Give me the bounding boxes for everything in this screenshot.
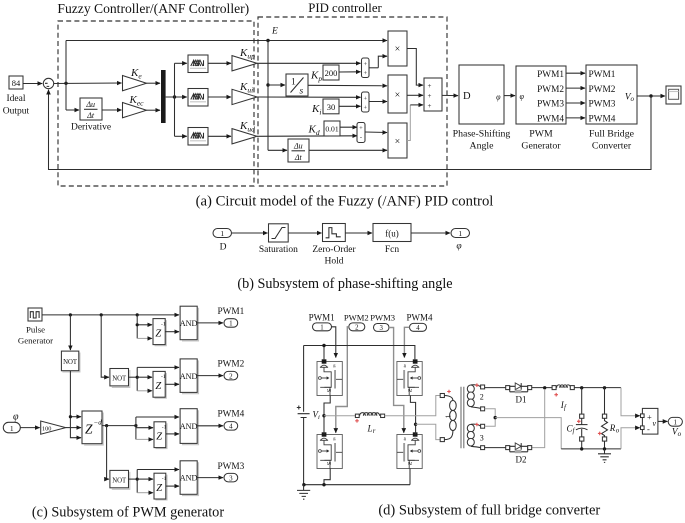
wire E line xyxy=(66,39,387,42)
sum block S3 xyxy=(357,123,365,143)
svg-text:NOT: NOT xyxy=(112,477,127,484)
diode D1 xyxy=(506,383,532,405)
wire AND4 to port3 xyxy=(197,477,223,479)
voltage measurement block xyxy=(641,408,658,434)
svg-text:Derivative: Derivative xyxy=(71,123,111,133)
wire fuzzy fanout vertical xyxy=(174,63,176,136)
svg-text:-1: -1 xyxy=(161,322,166,328)
wire top rail xyxy=(304,344,415,360)
svg-text:Kui: Kui xyxy=(239,81,253,95)
wire mult3 to sumF xyxy=(407,105,410,141)
delay block Z1 xyxy=(153,319,166,346)
logic NOT1 xyxy=(61,351,80,372)
svg-text:4: 4 xyxy=(416,325,420,332)
derivative block du/dt xyxy=(71,98,111,133)
constant 84 Ideal Output xyxy=(3,76,30,117)
wire gate2 xyxy=(336,327,349,433)
wire Kui to sum2 xyxy=(257,96,361,98)
svg-text:1: 1 xyxy=(458,229,462,238)
svg-text:(a) Circuit model of the Fuzzy: (a) Circuit model of the Fuzzy (/ANF) PI… xyxy=(196,194,494,210)
wire S1 to mult1 xyxy=(369,67,378,69)
wire S3 to mult3 xyxy=(365,131,387,134)
svg-text:Ki: Ki xyxy=(311,103,321,117)
sum junction S0 xyxy=(43,78,53,88)
svg-text:2: 2 xyxy=(229,372,233,380)
svg-text:D2: D2 xyxy=(516,455,527,465)
svg-text:D1: D1 xyxy=(516,395,527,405)
dashed box Fuzzy Controller xyxy=(58,21,254,186)
wire AND2 to port2 xyxy=(197,375,223,377)
sum block final xyxy=(424,78,442,111)
inport PWM4 xyxy=(406,313,433,332)
svg-text:PWM1: PWM1 xyxy=(589,70,616,80)
svg-text:PWM4: PWM4 xyxy=(406,313,433,323)
dashed box PID controller xyxy=(258,17,447,186)
product block mult1 xyxy=(388,31,407,66)
fuzzy block 2 xyxy=(188,89,208,107)
svg-text:Z: Z xyxy=(155,381,161,392)
mux bar xyxy=(161,70,166,123)
delay block Z2 xyxy=(153,371,166,398)
wire M2 source xyxy=(324,469,330,485)
svg-text:+: + xyxy=(363,104,367,111)
svg-text:AND: AND xyxy=(180,372,198,381)
wire Ke to mux xyxy=(147,82,161,84)
svg-text:E: E xyxy=(271,27,278,37)
svg-text:f: f xyxy=(564,404,567,411)
svg-text:4: 4 xyxy=(229,423,233,431)
red plus Ro xyxy=(598,432,602,436)
svg-text:PWM4: PWM4 xyxy=(537,115,564,125)
pulse generator xyxy=(18,308,53,346)
MOSFET M4 xyxy=(397,432,422,468)
svg-text:Ke: Ke xyxy=(130,67,142,81)
wire AND1 to port1 xyxy=(197,322,223,324)
svg-text:×: × xyxy=(395,137,401,148)
svg-text:+: + xyxy=(428,102,432,110)
svg-text:Z: Z xyxy=(156,432,162,443)
wire mult1 to sumF xyxy=(407,49,423,86)
svg-text:30: 30 xyxy=(327,102,336,112)
inductor Lr xyxy=(355,413,384,435)
wire corner to vminus xyxy=(621,428,640,449)
wire gate4 xyxy=(404,327,409,357)
wire saturation to ZOH xyxy=(288,232,321,234)
wire Lf to out corner xyxy=(574,386,621,389)
product block mult3 xyxy=(388,123,407,158)
product block mult2 xyxy=(388,75,407,113)
svg-text:PWM3: PWM3 xyxy=(217,462,244,472)
wire Zd out xyxy=(102,424,137,427)
ground G2 xyxy=(598,449,611,463)
svg-text:PWM4: PWM4 xyxy=(217,410,244,420)
fcn block f(u) xyxy=(373,224,411,256)
diode D2 xyxy=(506,443,532,465)
wire to NOT3 xyxy=(107,426,109,480)
svg-text:Generator: Generator xyxy=(18,336,53,346)
svg-text:Pulse: Pulse xyxy=(26,325,45,335)
MOSFET M3 xyxy=(397,359,422,395)
svg-text:PWM1: PWM1 xyxy=(309,313,335,323)
wire load bottom rail xyxy=(561,447,621,450)
outport PWM1 xyxy=(217,307,244,328)
wire node to primary bottom xyxy=(416,424,440,439)
svg-text:Δu: Δu xyxy=(293,142,303,151)
outport PWM4 xyxy=(217,410,244,431)
logic AND2 xyxy=(180,359,199,394)
inport D xyxy=(213,229,232,253)
wire M4 source xyxy=(409,469,411,485)
svg-text:φ: φ xyxy=(496,93,501,102)
svg-text:Z: Z xyxy=(85,422,93,437)
svg-text:Z: Z xyxy=(156,483,162,494)
wire mult2 to sumF xyxy=(407,94,423,96)
gain Ke xyxy=(123,67,147,91)
svg-text:PWM2: PWM2 xyxy=(537,85,564,95)
wire Z4 to AND4 xyxy=(166,485,179,487)
red plus Cf xyxy=(577,420,581,424)
svg-text:φ: φ xyxy=(456,242,461,252)
wire Z2 to AND2 xyxy=(165,383,179,385)
wire S2 to mult2 xyxy=(369,101,387,103)
wire fuzzy3 to Kud xyxy=(208,135,231,137)
wire mux out xyxy=(166,95,187,98)
svg-text:1: 1 xyxy=(10,424,14,433)
svg-text:×: × xyxy=(395,44,401,55)
svg-text:+: + xyxy=(363,61,367,68)
svg-text:Kec: Kec xyxy=(129,94,145,108)
svg-text:+: + xyxy=(647,412,652,422)
wire Kud to sum3 xyxy=(257,135,357,138)
wire E branch vertical xyxy=(266,41,269,151)
svg-text:1: 1 xyxy=(443,414,452,418)
svg-text:×: × xyxy=(395,90,401,101)
fuzzy block 1 xyxy=(188,55,208,73)
wire sec2 to D1 xyxy=(485,387,506,389)
svg-text:Kd: Kd xyxy=(308,124,320,138)
svg-text:1: 1 xyxy=(674,419,678,427)
red plus Lr xyxy=(355,419,359,423)
svg-text:-: - xyxy=(360,134,362,141)
wire to derivative2 xyxy=(268,149,287,151)
svg-text:PWM3: PWM3 xyxy=(537,100,564,110)
svg-text:PWM2: PWM2 xyxy=(589,85,616,95)
wire PSA to PWMGen xyxy=(504,95,515,97)
wire derivative2 to mult3 xyxy=(309,149,387,151)
wire gain to Zd xyxy=(66,427,81,429)
outport Vo xyxy=(668,417,682,438)
zero-order hold block xyxy=(312,224,356,267)
svg-text:PWM4: PWM4 xyxy=(589,115,616,125)
wire node vertical xyxy=(65,41,67,111)
delay block Z4 xyxy=(154,473,167,500)
saturation block xyxy=(259,224,298,255)
sum block S2 xyxy=(362,92,370,112)
inport PWM3 xyxy=(370,313,395,332)
wire Z1 to AND1 xyxy=(165,331,179,333)
svg-text:φ: φ xyxy=(13,412,19,423)
outport PWM3 xyxy=(217,462,244,483)
wire gate3 xyxy=(389,328,404,433)
wire D1 to Lf xyxy=(532,386,552,389)
constant Ki 30 xyxy=(311,99,339,117)
svg-text:Output: Output xyxy=(3,107,30,117)
svg-text:o: o xyxy=(616,427,620,434)
wire D2 up xyxy=(532,389,545,448)
wire to Derivative xyxy=(66,109,79,111)
transformer core xyxy=(461,387,464,449)
svg-text:1: 1 xyxy=(291,78,296,88)
svg-text:+: + xyxy=(428,82,432,90)
svg-text:−d: −d xyxy=(94,419,103,427)
sum block S1 xyxy=(362,58,370,78)
wire NOT1 to Zd inputs xyxy=(69,371,81,438)
wire feedback xyxy=(49,90,652,170)
derivative2 block du/dt xyxy=(288,139,309,162)
outport PWM2 xyxy=(217,360,244,381)
svg-text:PWM: PWM xyxy=(529,129,553,140)
svg-text:Saturation: Saturation xyxy=(259,245,298,255)
wire AND3 to port4 xyxy=(197,425,223,427)
delay block Z3 xyxy=(154,422,167,449)
wire NOT2 fanout xyxy=(129,367,180,390)
transformer secondary 2 top xyxy=(467,385,484,411)
svg-text:Zero-Order: Zero-Order xyxy=(312,245,356,255)
gain 100 xyxy=(41,421,66,434)
svg-text:3: 3 xyxy=(229,474,233,482)
wire v to outport xyxy=(658,420,668,422)
wire node to Lr xyxy=(324,415,355,417)
inductor Lf xyxy=(552,385,574,411)
svg-text:Fuzzy Controller/(ANF Control: Fuzzy Controller/(ANF Controller) xyxy=(57,1,249,17)
constant Kd 0.01 xyxy=(308,121,341,137)
svg-text:R: R xyxy=(609,423,616,433)
transformer primary xyxy=(440,394,456,442)
inport phi xyxy=(3,412,20,433)
wire to NOT2 xyxy=(101,315,109,377)
svg-text:1: 1 xyxy=(320,324,323,331)
wire Vo to scope xyxy=(637,94,665,97)
svg-text:1: 1 xyxy=(229,320,233,328)
svg-text:Δu: Δu xyxy=(85,100,95,109)
constant Kp 200 xyxy=(310,65,339,83)
fuzzy block 3 xyxy=(188,128,208,146)
outport phi xyxy=(451,229,470,252)
wire phi to gain xyxy=(20,427,39,429)
wire PWM2 link xyxy=(566,87,585,89)
svg-text:Angle: Angle xyxy=(470,141,495,152)
svg-text:AND: AND xyxy=(180,319,198,328)
svg-text:Kup: Kup xyxy=(239,47,255,61)
wire PWM3 link xyxy=(566,102,585,104)
wire derivative to Kec xyxy=(102,109,122,111)
resistor Ro xyxy=(602,388,620,449)
svg-text:Vo: Vo xyxy=(625,93,635,104)
svg-text:3: 3 xyxy=(480,434,484,443)
svg-text:Z: Z xyxy=(155,329,161,340)
wire sum to Ke xyxy=(54,82,122,85)
wire corner to vplus xyxy=(621,388,640,416)
svg-text:Fcn: Fcn xyxy=(385,245,400,255)
svg-text:NOT: NOT xyxy=(112,375,127,382)
svg-text:-1: -1 xyxy=(162,425,167,431)
gain Kec xyxy=(123,94,147,118)
wire M3 source to node xyxy=(410,396,417,435)
wire sec3 to D2 xyxy=(485,447,506,449)
red plus primary xyxy=(447,390,451,394)
red plus Lf xyxy=(554,393,558,397)
svg-text:0.01: 0.01 xyxy=(325,125,338,134)
wire to NOT1 xyxy=(69,315,71,350)
wire Lr to primary top xyxy=(385,396,440,416)
red plus secondary2 xyxy=(475,383,479,387)
svg-text:(b) Subsystem of phase-shiftin: (b) Subsystem of phase-shifting angle xyxy=(237,276,452,292)
wire integrator to mult2 xyxy=(308,84,387,87)
svg-text:PWM3: PWM3 xyxy=(370,313,395,323)
gain Kui xyxy=(232,81,257,105)
gain Kup xyxy=(232,47,257,71)
svg-text:Hold: Hold xyxy=(325,257,344,267)
wire NOT3 fanout xyxy=(129,470,180,493)
svg-text:r: r xyxy=(373,428,376,435)
transformer secondary 3 bottom xyxy=(467,424,484,449)
svg-text:PWM2: PWM2 xyxy=(217,360,244,370)
wire PWM4 link xyxy=(566,117,585,119)
wire Z3 to AND3 xyxy=(166,433,179,435)
subsystem PWM Generator xyxy=(516,66,566,152)
svg-text:Full Bridge: Full Bridge xyxy=(589,129,635,140)
svg-text:PWM3: PWM3 xyxy=(589,100,616,110)
svg-text:Vi: Vi xyxy=(313,410,321,422)
wire Kup to sum1 xyxy=(257,62,361,64)
MOSFET M2 xyxy=(317,432,342,468)
wire sumF to PSA xyxy=(442,94,458,96)
svg-text:+: + xyxy=(363,95,367,102)
logic NOT3 xyxy=(110,470,130,489)
svg-text:Kud: Kud xyxy=(239,120,255,134)
logic AND1 xyxy=(180,306,199,341)
svg-text:φ: φ xyxy=(520,92,525,101)
svg-text:1: 1 xyxy=(220,229,224,238)
integrator block 1/s xyxy=(286,74,308,97)
svg-text:84: 84 xyxy=(12,78,21,88)
svg-text:L: L xyxy=(367,424,373,434)
svg-text:100: 100 xyxy=(42,426,51,433)
wire 84 to sum xyxy=(23,83,42,85)
svg-text:-1: -1 xyxy=(162,476,167,482)
red plus secondary3 xyxy=(475,423,479,427)
svg-text:Δt: Δt xyxy=(86,111,95,120)
wire D to saturation xyxy=(232,232,268,234)
scope block xyxy=(666,86,681,104)
svg-text:+: + xyxy=(359,125,363,132)
MOSFET M1 xyxy=(317,359,342,395)
capacitor Cf xyxy=(567,388,588,449)
svg-text:200: 200 xyxy=(325,68,338,78)
wire gate1 xyxy=(332,327,336,358)
wire fuzzy2 to Kui xyxy=(208,96,231,98)
svg-text:PID controller: PID controller xyxy=(308,1,382,15)
svg-text:+: + xyxy=(428,92,432,100)
subsystem Full Bridge Converter xyxy=(586,65,637,152)
wire row1 fanout xyxy=(136,315,152,339)
svg-text:NOT: NOT xyxy=(63,359,78,366)
svg-text:D: D xyxy=(463,91,471,102)
svg-text:s: s xyxy=(300,87,304,97)
wire 0.01 to sum3 xyxy=(340,126,357,128)
logic AND3 xyxy=(180,409,199,445)
svg-text:AND: AND xyxy=(180,474,198,483)
svg-text:Vo: Vo xyxy=(672,428,682,439)
svg-text:Converter: Converter xyxy=(592,141,632,152)
svg-text:Ideal: Ideal xyxy=(7,94,26,104)
wire M1 source to node xyxy=(322,396,330,435)
svg-text:Kp: Kp xyxy=(310,70,322,84)
svg-text:PWM1: PWM1 xyxy=(537,70,564,80)
svg-text:-: - xyxy=(647,424,650,434)
wire centertap xyxy=(485,409,562,449)
wire bottom rail xyxy=(302,483,410,486)
svg-text:2: 2 xyxy=(480,392,484,401)
svg-text:v: v xyxy=(653,419,657,428)
svg-text:AND: AND xyxy=(180,422,198,431)
ground G1 xyxy=(297,485,310,500)
wire 30 to sum2 xyxy=(339,105,361,107)
svg-text:f(u): f(u) xyxy=(385,229,399,239)
svg-text:Δt: Δt xyxy=(294,153,303,162)
wire pulse bus xyxy=(42,313,179,316)
wire Kec to mux xyxy=(147,109,161,111)
svg-text:(d) Subsystem of full bridge c: (d) Subsystem of full bridge converter xyxy=(378,503,600,519)
inport PWM2 xyxy=(344,313,369,332)
gain Kud xyxy=(232,120,257,144)
svg-text:PWM1: PWM1 xyxy=(217,307,244,317)
svg-text:Generator: Generator xyxy=(521,141,561,152)
wire row3 fanout xyxy=(136,417,179,439)
wire ZOH to Fcn xyxy=(345,232,372,234)
wire to integrator xyxy=(268,84,285,86)
svg-text:PWM2: PWM2 xyxy=(344,313,369,323)
logic AND4 xyxy=(180,461,199,496)
wire Fcn to outport xyxy=(411,232,450,234)
subsystem Phase-Shifting Angle xyxy=(453,65,511,152)
logic NOT2 xyxy=(110,369,130,388)
inport PWM1 xyxy=(309,313,335,332)
wire fuzzy1 to Kup xyxy=(208,62,231,64)
wire 200 to sum1 xyxy=(339,71,361,73)
wire PWM1 link xyxy=(566,72,585,74)
svg-text:f: f xyxy=(573,428,576,435)
svg-text:+: + xyxy=(363,70,367,77)
delay block Z-d xyxy=(82,411,103,445)
svg-text:Phase-Shifting: Phase-Shifting xyxy=(453,129,511,140)
svg-text:2: 2 xyxy=(355,324,359,331)
source Vi battery xyxy=(297,346,320,485)
svg-text:-1: -1 xyxy=(161,374,166,380)
wire to fuzzy1 xyxy=(175,62,187,64)
svg-text:3: 3 xyxy=(379,325,383,332)
svg-text:D: D xyxy=(220,243,227,253)
wire to fuzzy3 xyxy=(175,135,187,137)
svg-text:(c) Subsystem of PWM generator: (c) Subsystem of PWM generator xyxy=(32,505,224,521)
